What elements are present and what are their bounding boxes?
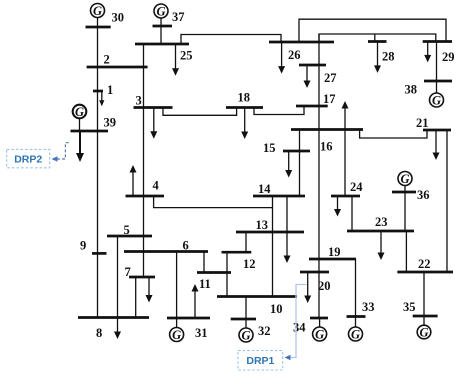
bus 28 — [368, 40, 387, 43]
svg-text:28: 28 — [382, 50, 395, 64]
bus 14 — [253, 195, 305, 198]
bus 34 — [310, 317, 328, 320]
svg-text:23: 23 — [375, 215, 388, 229]
generator G36 — [398, 172, 412, 186]
svg-text:G: G — [75, 105, 84, 119]
svg-text:15: 15 — [263, 141, 276, 155]
bus 18 — [226, 106, 263, 109]
svg-text:34: 34 — [293, 321, 306, 335]
svg-text:5: 5 — [124, 223, 130, 237]
svg-text:G: G — [419, 326, 428, 340]
svg-text:17: 17 — [323, 92, 336, 106]
wire 27-17-16-19-20-34 long vertical — [318, 34, 320, 318]
svg-text:27: 27 — [324, 71, 337, 85]
bus 11 — [197, 271, 231, 274]
svg-text:9: 9 — [80, 239, 86, 253]
svg-text:6: 6 — [183, 239, 189, 253]
wire 10 to 32 — [245, 297, 247, 320]
bus 10 — [217, 295, 297, 298]
svg-text:26: 26 — [288, 48, 301, 62]
svg-text:33: 33 — [362, 300, 375, 314]
generator G33 — [349, 327, 363, 341]
load arrow bus 21 — [435, 130, 437, 154]
svg-text:G: G — [315, 328, 324, 342]
wire 38 to G — [436, 81, 438, 93]
bus 15 — [283, 150, 310, 153]
svg-text:25: 25 — [180, 49, 193, 63]
wire 19 to 33 — [355, 259, 357, 317]
bus 37 — [153, 25, 173, 28]
bus 22 — [397, 271, 453, 274]
svg-text:13: 13 — [256, 218, 269, 232]
wire 34 G stem — [319, 318, 321, 327]
svg-text:1: 1 — [107, 83, 113, 97]
svg-text:36: 36 — [417, 188, 430, 202]
generator G39 — [73, 105, 87, 119]
svg-text:20: 20 — [318, 279, 331, 293]
load arrow bus 23 — [380, 231, 382, 254]
svg-text:14: 14 — [258, 182, 271, 196]
wire 6 to 11 — [203, 252, 205, 273]
wire 16 to 21 — [360, 130, 427, 139]
load arrow bus 39 bold — [79, 131, 81, 154]
load arrow bus 8 — [117, 318, 119, 333]
wire 16-15-14 vertical — [299, 130, 301, 197]
bus 13 — [236, 231, 304, 234]
bus 38 — [424, 80, 452, 83]
bus 33 — [347, 315, 366, 318]
load arrow bus 14 — [286, 196, 288, 257]
svg-text:38: 38 — [405, 83, 418, 97]
wire 5 to 8 — [117, 236, 119, 318]
svg-text:4: 4 — [153, 179, 160, 193]
generator G38 — [430, 93, 444, 107]
bus 12 — [222, 251, 252, 254]
wire 35 G stem — [423, 316, 425, 326]
svg-text:12: 12 — [243, 257, 256, 271]
wire 33 G stem — [355, 317, 357, 328]
svg-text:G: G — [93, 4, 102, 18]
svg-text:3: 3 — [136, 94, 142, 108]
bus 35 — [413, 315, 438, 318]
svg-text:37: 37 — [172, 10, 185, 24]
wire 7 to 8 — [135, 277, 137, 318]
bus 8 — [78, 316, 149, 319]
svg-text:G: G — [241, 329, 250, 343]
svg-text:8: 8 — [96, 326, 102, 340]
dg arrow bus 4 up — [132, 172, 134, 197]
bus 19 — [309, 258, 356, 261]
load arrow bus 25 — [175, 44, 177, 69]
svg-text:31: 31 — [195, 326, 208, 340]
bus 36 — [392, 191, 416, 194]
dg arrow bus 31 up — [194, 291, 196, 318]
bus 21 — [423, 129, 451, 132]
bus 29 — [423, 40, 452, 43]
wire 22 to 35 — [423, 272, 425, 316]
DRP1 connector line — [289, 285, 307, 358]
wire 6 to 31 — [176, 252, 178, 319]
svg-text:G: G — [172, 328, 181, 342]
DRP1 box — [238, 351, 283, 370]
svg-text:DRP1: DRP1 — [246, 355, 274, 367]
load arrow bus 26 — [281, 42, 283, 67]
load arrow bus 29 — [427, 42, 429, 56]
bus 1 — [93, 90, 103, 93]
bus 30 — [86, 26, 111, 29]
wire 3 to 18 — [163, 108, 237, 116]
svg-text:G: G — [432, 94, 441, 108]
load arrow bus 27 — [306, 65, 308, 82]
svg-text:19: 19 — [328, 245, 341, 259]
wire 23 to 22 — [405, 231, 407, 272]
wire 32 G stem — [245, 319, 247, 328]
wire 24 to 23 — [351, 196, 353, 231]
generator G32 — [239, 328, 253, 342]
bus 4 — [126, 195, 165, 198]
bus 9 — [92, 252, 107, 255]
load arrow bus 18 — [244, 108, 246, 133]
svg-text:2: 2 — [104, 53, 110, 67]
svg-text:18: 18 — [238, 91, 251, 105]
wire 12-11-10 vertical — [226, 252, 228, 296]
load arrow bus 7 — [148, 277, 150, 296]
svg-text:30: 30 — [112, 10, 125, 24]
bus 17 — [296, 105, 328, 108]
bus 39 — [71, 130, 109, 133]
svg-text:G: G — [156, 5, 165, 19]
svg-text:10: 10 — [270, 302, 283, 316]
wire 39 G stem — [79, 118, 81, 131]
load arrow bus 20 — [307, 272, 309, 297]
generator G31 — [170, 328, 184, 342]
svg-text:G: G — [400, 172, 409, 186]
svg-text:11: 11 — [199, 277, 211, 291]
DRP2 dashed arrow — [57, 143, 71, 159]
svg-text:7: 7 — [125, 265, 131, 279]
svg-text:DRP2: DRP2 — [14, 153, 42, 165]
wire 29 to 38 — [436, 42, 438, 82]
svg-text:22: 22 — [418, 257, 431, 271]
wire 37 to 25 — [160, 19, 162, 45]
load arrow bus 15 — [288, 151, 290, 171]
dg arrow bus 16-24 up — [344, 108, 346, 197]
svg-text:16: 16 — [320, 140, 333, 154]
svg-text:35: 35 — [403, 300, 416, 314]
bus 16 — [291, 128, 363, 131]
bus 23 — [347, 230, 414, 233]
svg-text:29: 29 — [442, 50, 455, 64]
DRP2 box — [7, 149, 50, 167]
wire 26 to 29 top — [299, 19, 446, 42]
wire 26 to 29 second — [319, 34, 436, 42]
wire 21 to 22 right vertical — [446, 130, 448, 272]
generator G30 — [91, 4, 105, 18]
wire main left vertical 30-2-1-39-9-8 — [97, 18, 99, 318]
bus 25 — [135, 43, 189, 46]
wire 18 to 17 — [254, 106, 304, 115]
wire 25 to 26 — [181, 35, 281, 45]
generator G35 — [417, 325, 431, 339]
svg-text:G: G — [351, 328, 360, 342]
bus 2 — [87, 66, 148, 69]
wire 36 G stem and 36 to 23 — [404, 186, 406, 232]
wire 31 G stem — [176, 318, 178, 328]
wire 25-2-3-4-5-7 vertical — [143, 44, 145, 277]
svg-text:32: 32 — [258, 324, 271, 338]
load arrow bus 1 — [101, 91, 103, 102]
load arrow bus 3 — [153, 108, 155, 133]
svg-text:24: 24 — [350, 180, 363, 194]
generator G37 — [154, 4, 168, 18]
load arrow bus 24 — [337, 196, 339, 210]
bus 20 — [300, 271, 329, 274]
generator G34 — [313, 327, 327, 341]
bus 7 — [129, 276, 155, 279]
bus 5 — [107, 235, 152, 238]
svg-text:21: 21 — [416, 116, 429, 130]
bus 3 — [134, 106, 173, 109]
load arrow bus 28 — [377, 42, 379, 67]
bus 32 — [231, 318, 256, 321]
bus 27 — [299, 64, 326, 67]
svg-text:39: 39 — [104, 116, 117, 130]
wire 28 riser — [374, 34, 376, 42]
wire 4 to 14 — [154, 196, 273, 208]
wire 13 to 12 — [245, 232, 247, 252]
wire 14-13-10 vertical — [272, 196, 274, 297]
bus 24 — [331, 195, 360, 198]
bus 31 — [167, 317, 210, 320]
bus 6 — [124, 250, 208, 253]
bus 26 — [269, 41, 334, 44]
